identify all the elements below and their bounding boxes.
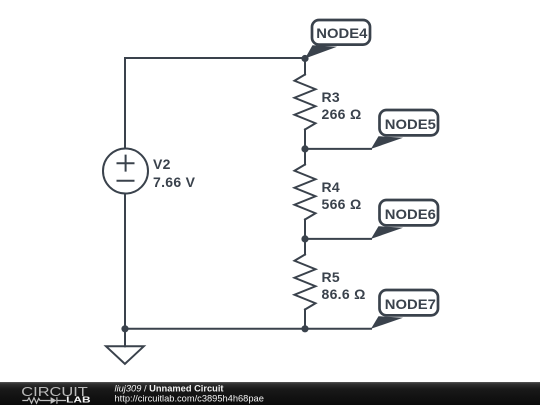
wire top horizontal (125, 57, 305, 59)
ground (106, 346, 144, 364)
svg-text:liuj309 / Unnamed Circuit: liuj309 / Unnamed Circuit (115, 384, 224, 394)
svg-text:R4: R4 (322, 179, 341, 195)
resistor R4 (295, 165, 316, 220)
wire node6 stub (305, 238, 371, 240)
logo CIRCUIT LAB (21, 384, 90, 404)
svg-text:266 Ω: 266 Ω (322, 106, 362, 122)
resistor R3 (295, 75, 316, 130)
svg-text:NODE5: NODE5 (385, 116, 436, 132)
node NODE7 (371, 290, 438, 329)
wire R4 to R5 (304, 220, 306, 255)
node NODE5 (371, 110, 438, 149)
voltage source V2 (103, 149, 148, 194)
wire right rail R3 top lead (304, 58, 306, 75)
svg-text:7.66 V: 7.66 V (153, 174, 196, 190)
wire node5 stub (305, 148, 371, 150)
junction node C (R4/R5) (301, 235, 308, 242)
wire ground stub (124, 329, 126, 347)
junction node D bottom right (301, 325, 308, 332)
wire R5 bottom lead (304, 310, 306, 329)
svg-text:V2: V2 (153, 156, 171, 172)
wire left rail lower (124, 194, 126, 329)
svg-text:http://circuitlab.com/c3895h4h: http://circuitlab.com/c3895h4h68pae (115, 394, 264, 404)
wire bottom horizontal (125, 328, 371, 330)
wire R3 to R4 (304, 130, 306, 165)
svg-text:NODE4: NODE4 (316, 25, 367, 41)
svg-text:566 Ω: 566 Ω (322, 196, 362, 212)
junction node A top right (301, 55, 308, 62)
svg-text:R3: R3 (322, 89, 341, 105)
svg-text:LAB: LAB (66, 395, 91, 404)
resistor R5 (295, 255, 316, 310)
svg-text:NODE6: NODE6 (385, 206, 436, 222)
junction node B (R3/R4) (301, 145, 308, 152)
svg-text:86.6 Ω: 86.6 Ω (322, 286, 366, 302)
svg-text:R5: R5 (322, 269, 341, 285)
wire left rail upper (124, 58, 126, 149)
junction ground (121, 325, 128, 332)
node NODE4 (305, 20, 370, 59)
svg-text:NODE7: NODE7 (385, 296, 436, 312)
node NODE6 (371, 200, 438, 239)
footer credit text (115, 384, 264, 404)
